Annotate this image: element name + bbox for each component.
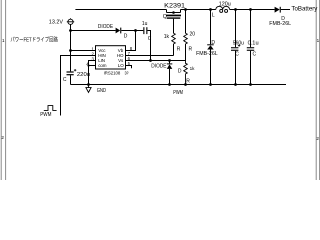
resistor R 1k (pulldown) (184, 61, 188, 85)
svg-text:2: 2 (1, 135, 4, 140)
diode D bootstrap DIODE (116, 28, 122, 34)
svg-text:PWM: PWM (173, 90, 183, 96)
svg-text:13.2V: 13.2V (49, 20, 63, 26)
resistor R 20 (184, 33, 188, 44)
resistor R 1k (gate) (172, 33, 176, 44)
plus mark of 220u (74, 69, 76, 71)
svg-text:C: C (148, 36, 152, 42)
diode D FMB-26L output (275, 7, 290, 13)
svg-text:1: 1 (2, 38, 5, 43)
svg-text:D: D (211, 40, 215, 46)
svg-text:C: C (253, 52, 257, 58)
svg-text:GND: GND (97, 88, 106, 94)
svg-text:D: D (178, 69, 182, 75)
node junction at (70.5,50.5) (69, 49, 72, 52)
node junction at (250.5,84.5) (249, 83, 252, 86)
svg-text:パワーFETドライブ回路: パワーFETドライブ回路 (10, 36, 58, 44)
wire power symbol down to Vcc node (70, 24, 72, 71)
node junction at (70.5,30.5) (69, 29, 72, 32)
wire 560u cap to ground rail (235, 51, 237, 85)
node junction at (169.5,60.5) (168, 59, 171, 62)
capacitor C 0.1u (247, 47, 254, 51)
frame left inner border line (5, 0, 7, 180)
wire LIN pin3 hook (89, 61, 96, 66)
node junction at (235.5,84.5) (234, 83, 237, 86)
capacitor C 560u (231, 47, 238, 51)
svg-text:IRS2108: IRS2108 (104, 70, 121, 75)
wire source node down to resistor (185, 10, 187, 34)
node junction at (185.5,84.5) (184, 83, 187, 86)
top rail wire output segment (230, 9, 275, 11)
svg-text:1k: 1k (190, 66, 196, 71)
svg-text:DIODE: DIODE (98, 24, 114, 30)
svg-text:D: D (124, 33, 128, 39)
wire Vb pin 8 connection (126, 31, 136, 51)
svg-text:560u: 560u (233, 41, 244, 47)
svg-text:R: R (186, 79, 190, 85)
wire LO pin5 stub (126, 66, 132, 69)
svg-text:C: C (63, 77, 67, 83)
svg-text:com: com (98, 63, 107, 68)
svg-text:DIP: DIP (125, 70, 129, 75)
wire HIN pin2 to PWM input (61, 56, 96, 116)
ground symbol (86, 85, 91, 93)
frame left outer border line (0, 0, 2, 180)
wire 20 resistor to Vs line (185, 44, 187, 61)
svg-text:FMB-26L: FMB-26L (269, 21, 291, 27)
wire Vcc pin1 (71, 50, 96, 52)
wire gate resistor to HO line (173, 44, 175, 56)
wire 1u cap to Vs vertical (147, 31, 150, 61)
node junction at (185.5,9.5) (184, 8, 187, 11)
wire HO pin7 line (126, 55, 174, 57)
ground rail wire (71, 84, 287, 86)
wire 560u cap top lead (235, 10, 237, 48)
node junction at (88.5,65.5) (87, 64, 89, 66)
op-amp U1 IRS2108 box (96, 46, 126, 69)
wire Vs pin6 line (126, 60, 186, 62)
wire diode to Vb node (121, 30, 143, 32)
diode D clamp DIODE (vertical) (167, 61, 173, 85)
node junction at (210.5,84.5) (209, 83, 212, 86)
top rail wire input segment (75, 9, 166, 11)
wire gate lead down (173, 19, 175, 34)
wire 0.1u cap top lead (250, 10, 252, 48)
svg-text:L: L (212, 12, 215, 18)
PWM square wave symbol (44, 106, 57, 111)
svg-text:120u: 120u (219, 1, 231, 7)
svg-text:1k: 1k (164, 34, 170, 40)
wire 220u cap to ground rail (70, 75, 72, 84)
wire com down to ground rail (88, 66, 90, 85)
node junction at (150.5,60.5) (149, 59, 152, 62)
svg-text:20: 20 (190, 31, 196, 37)
node junction at (169.5,84.5) (168, 83, 171, 86)
inductor L 120u (216, 6, 230, 12)
node junction at (210.5,9.5) switch node (209, 8, 212, 11)
svg-text:0.1u: 0.1u (248, 41, 259, 47)
node junction at (250.5,9.5) (249, 8, 252, 11)
top rail wire switch node segment (181, 9, 216, 11)
wire com pin4 (89, 65, 96, 67)
frame right outer border line (319, 0, 320, 180)
svg-text:FMB-26L: FMB-26L (196, 51, 218, 57)
svg-text:K2391: K2391 (164, 4, 186, 10)
node junction at (88.5,84.5) (87, 83, 90, 86)
node junction Vb at (135.5,30.5) (134, 29, 137, 32)
transistor Q K2391 (166, 10, 181, 19)
capacitor C 1u bootstrap (143, 27, 147, 34)
diode D FMB-26L freewheel (vertical) (207, 10, 214, 85)
capacitor C 220u (67, 71, 74, 75)
plus mark of 560u (238, 44, 240, 46)
svg-text:LO: LO (118, 63, 124, 68)
wire 0.1u cap to ground rail (250, 51, 252, 85)
svg-text:PWM: PWM (40, 112, 52, 118)
svg-text:DIODE: DIODE (151, 63, 167, 69)
svg-text:1u: 1u (142, 21, 148, 27)
svg-text:R: R (189, 47, 193, 53)
wire Vcc line to bootstrap diode (71, 30, 116, 32)
node junction at (235.5,9.5) (234, 8, 237, 11)
svg-text:2: 2 (316, 136, 319, 141)
svg-text:R: R (177, 47, 181, 53)
svg-text:220u: 220u (77, 72, 90, 78)
svg-text:Q: Q (163, 14, 167, 20)
frame right inner border line (315, 0, 317, 180)
svg-text:ToBattery: ToBattery (291, 6, 317, 12)
power supply symbol 13.2V (67, 18, 74, 24)
svg-text:1: 1 (317, 38, 320, 43)
